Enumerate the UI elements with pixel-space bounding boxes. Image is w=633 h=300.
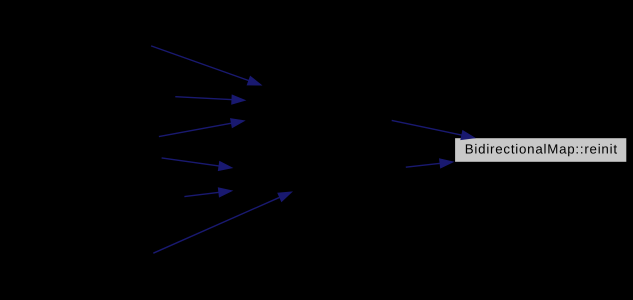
svg-text:BidirectionalMap::reinit: BidirectionalMap::reinit [465,142,618,157]
